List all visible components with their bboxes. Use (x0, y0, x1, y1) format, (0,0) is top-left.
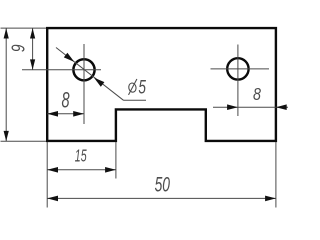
svg-text:5: 5 (138, 76, 146, 98)
svg-text:15: 15 (75, 147, 87, 166)
label 9 (rotated) (9, 44, 29, 52)
label diameter-5: slashed circle symbol (128, 79, 137, 95)
arrow up dim 9 (30, 28, 35, 38)
extension line below right edge (for 50) (275, 142, 277, 208)
arrow down dim 9 (30, 59, 35, 69)
svg-text:50: 50 (155, 173, 170, 197)
centerline left hole vertical (83, 44, 85, 124)
leader tail under diameter label (124, 99, 147, 101)
centerline left hole horizontal (22, 69, 101, 71)
arrow right dim 15 (105, 167, 116, 173)
arrow left dim 50 (47, 196, 58, 202)
centerline right hole horizontal (211, 68, 270, 70)
arrow pointing left at right edge (276, 104, 287, 110)
arrow up overall height (4, 28, 9, 38)
dimension line 9 (top edge to hole center) (32, 28, 34, 70)
arrow pointing right at right-hole centerline (227, 104, 238, 110)
dimension line 15 (left edge to notch) (47, 169, 116, 171)
label diameter-5: digit 5 (138, 76, 146, 98)
dimension line 8 right (hole center to right edge, outside arrows) (213, 106, 288, 108)
extension line below notch left corner (for 15) (115, 142, 117, 179)
arrow right dim 8 left (73, 111, 84, 117)
arrow down overall height (4, 131, 9, 141)
extension line bottom-left (1, 140, 47, 142)
hole left (circle) (73, 59, 94, 80)
arrow left dim 8 left (47, 111, 58, 117)
label 15 (75, 147, 87, 166)
part outline (plate with bottom notch) (47, 28, 276, 141)
arrow right dim 50 (265, 196, 276, 202)
dimension line 50 (overall width) (47, 197, 276, 199)
arrow left dim 15 (47, 167, 58, 173)
extension line below left edge (for 15 and 50) (46, 142, 48, 208)
label 8 right (253, 84, 261, 104)
hole right (circle) (227, 58, 248, 79)
svg-text:8: 8 (253, 84, 261, 104)
arrow at circle lower-right (pointing into circle) (94, 78, 105, 87)
arrow at circle upper-left (pointing into circle) (64, 53, 75, 62)
extension line top-left (for height dims) (1, 27, 47, 29)
dimension line overall height (left, unlabeled) (5, 28, 7, 141)
label 50 (155, 173, 170, 197)
svg-text:9: 9 (9, 44, 29, 52)
svg-text:8: 8 (61, 88, 70, 113)
dimension line 8 left (left edge to hole center) (47, 113, 84, 115)
leader line diameter 5 (diagonal through left hole) (56, 48, 124, 101)
centerline right hole vertical (237, 45, 239, 117)
label 8 left (61, 88, 70, 113)
